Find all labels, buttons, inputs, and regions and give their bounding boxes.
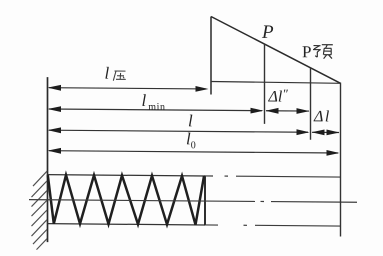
label delta-l — [314, 108, 329, 126]
wall line — [47, 77, 49, 242]
force line P-preload — [310, 68, 312, 140]
spring envelope bottom line — [48, 224, 206, 225]
force line P — [264, 44, 266, 124]
dimension delta-l'' (working deflection) — [266, 108, 310, 114]
force triangle base line — [211, 81, 341, 83]
label P — [262, 21, 274, 43]
top guide dash-dot line — [205, 176, 341, 177]
spring end plate — [204, 175, 206, 225]
wall hatching — [32, 171, 48, 250]
spring coil zigzag — [48, 175, 204, 225]
dimension l (installed length) — [48, 127, 310, 135]
force triangle left edge — [210, 16, 212, 94]
label l — [188, 111, 193, 131]
glyph yu (preload) of label P-yu — [313, 45, 333, 59]
spring axis center line — [29, 200, 357, 203]
label l-ya — [105, 63, 110, 83]
bottom guide dash-dot line — [205, 225, 341, 226]
spring envelope top line — [48, 175, 206, 176]
dimension l0 (free length) — [48, 148, 340, 156]
free length extension line — [340, 84, 342, 237]
label P-yu — [302, 42, 311, 62]
glyph ya (compress) subscript of l-ya — [113, 71, 126, 81]
label l-min — [142, 90, 166, 112]
label l0 — [186, 129, 196, 151]
dimension delta-l (pre-deflection) — [312, 129, 340, 135]
force triangle hypotenuse — [211, 16, 341, 83]
dimension l-ya (solid length) — [48, 85, 209, 92]
label delta-l'' — [269, 86, 287, 107]
dimension l-min — [48, 106, 264, 114]
